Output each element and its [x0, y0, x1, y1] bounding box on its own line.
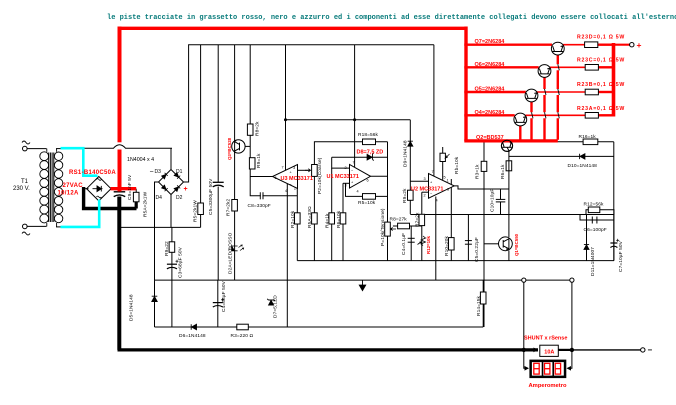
wire aux bridge left lead	[155, 182, 159, 280]
wire R23C out	[598, 66, 613, 68]
svg-text:C7=10µF 50V: C7=10µF 50V	[618, 240, 624, 272]
resistor R3	[237, 324, 249, 330]
wire rail Q7	[464, 44, 552, 46]
wire rail Q5	[464, 91, 526, 93]
resistor R18	[363, 139, 376, 145]
resistor R5A33	[312, 213, 318, 224]
svg-text:R5A=33Ω: R5A=33Ω	[307, 206, 313, 228]
wire U2 pin2 link	[422, 191, 429, 193]
diode D6	[191, 324, 196, 329]
svg-text:4: 4	[436, 199, 438, 203]
wire second bus	[285, 45, 287, 170]
resistor R16	[583, 139, 598, 145]
svg-text:D6=1N4148: D6=1N4148	[179, 333, 206, 339]
wire Q6 base drop	[543, 77, 545, 140]
svg-text:7: 7	[432, 170, 434, 174]
diode bridge aux D1-D4	[159, 170, 184, 195]
svg-text:1: 1	[447, 178, 449, 182]
resistor R5	[363, 194, 376, 200]
svg-text:7: 7	[353, 161, 355, 165]
wire offset pot column	[442, 147, 444, 180]
wire plus terminal lead	[614, 44, 631, 46]
wire rail Q4	[464, 114, 514, 116]
wire R18 row	[314, 142, 387, 165]
wire P2 bottom column	[313, 176, 315, 260]
capacitor C3	[167, 263, 177, 265]
wire Q4 emitter to R23A	[525, 114, 585, 117]
node sense top left	[522, 278, 526, 282]
wire U3 output link	[250, 176, 272, 178]
diode D5	[152, 296, 158, 301]
wire meter left lead	[524, 350, 528, 368]
transistor Q2	[501, 140, 512, 151]
svg-text:R5A=2k1W: R5A=2k1W	[143, 191, 149, 217]
transistor Q4	[514, 113, 527, 126]
wire R10 column	[450, 179, 452, 261]
svg-text:R9=1k: R9=1k	[256, 153, 262, 168]
wire thick minus trunk	[117, 197, 121, 350]
op-amp U3	[273, 165, 298, 189]
potentiometer offset	[440, 153, 445, 161]
resistor R23B	[585, 89, 598, 95]
wire red right bus	[612, 43, 616, 117]
potentiometer P2	[312, 165, 318, 177]
wire C7 column	[613, 215, 615, 261]
wire U1 pin3 link	[343, 182, 350, 184]
resistor R14	[480, 292, 486, 304]
svg-text:R12=56k: R12=56k	[584, 202, 605, 208]
wire C2 column	[467, 215, 469, 261]
transistor Q5	[525, 89, 538, 102]
wire RS1 minus lead	[84, 188, 89, 190]
svg-text:Q2=BD537: Q2=BD537	[476, 135, 504, 141]
capacitor C7	[610, 242, 617, 244]
svg-text:C6=100pF: C6=100pF	[584, 227, 607, 233]
svg-text:R7=2k2: R7=2k2	[226, 199, 232, 216]
wire right column black	[613, 142, 615, 261]
svg-text:10A: 10A	[544, 349, 554, 355]
svg-text:D10=1N4148: D10=1N4148	[568, 163, 598, 169]
svg-text:6: 6	[367, 178, 369, 182]
wire R6 column	[342, 183, 344, 260]
resistor R7	[232, 200, 238, 212]
wire R23D out	[598, 44, 614, 46]
svg-text:3: 3	[293, 166, 295, 170]
wire Q3 column top	[234, 45, 236, 141]
svg-text:R7=2k: R7=2k	[415, 212, 421, 227]
diode D10	[580, 154, 585, 159]
svg-text:27VAC: 27VAC	[63, 183, 84, 189]
wire C5 to bus3	[217, 187, 219, 281]
wire thick red trunk	[118, 27, 122, 192]
svg-text:R12=10k: R12=10k	[426, 235, 431, 254]
wire U3 pin2 column	[296, 189, 298, 261]
wire meter right lead	[568, 350, 572, 368]
capacitor C4A	[213, 302, 223, 304]
resistor R5B	[198, 203, 204, 215]
svg-text:D5=1N4148: D5=1N4148	[129, 294, 135, 321]
svg-text:P=10k(Tensione): P=10k(Tensione)	[380, 208, 386, 246]
capacitor C8	[259, 192, 261, 199]
terminal output plus	[630, 43, 634, 47]
transformer T1 secondary winding	[56, 149, 58, 152]
svg-text:Q1=BC550: Q1=BC550	[514, 233, 519, 256]
svg-text:1N4004 x 4: 1N4004 x 4	[127, 157, 154, 163]
svg-text:7: 7	[282, 165, 284, 169]
junction dot bus2 right	[353, 118, 356, 121]
wire Q3 base link	[240, 145, 251, 147]
resistor R23A	[585, 113, 598, 119]
wire Q5 base drop	[530, 102, 532, 140]
wire bus3	[155, 279, 572, 281]
svg-text:230 V.: 230 V.	[13, 186, 30, 192]
transformer T1 core	[48, 153, 50, 223]
ground	[359, 280, 365, 291]
wire U1 output node	[371, 175, 388, 177]
svg-text:R9=2k: R9=2k	[402, 188, 408, 203]
wire Q1 base row	[484, 243, 499, 245]
svg-text:R3=1k: R3=1k	[475, 164, 481, 179]
REDNET	[111, 27, 631, 192]
wire cyan secondary top	[61, 148, 98, 176]
wire Q7 emitter to R23D	[563, 44, 585, 47]
svg-text:C5=3300µF 50V: C5=3300µF 50V	[208, 178, 214, 215]
svg-text:6: 6	[275, 176, 277, 180]
resistor R9a	[249, 158, 255, 169]
svg-text:D11=1N4007: D11=1N4007	[590, 247, 596, 276]
resistor R3b	[481, 161, 487, 171]
svg-text:5: 5	[444, 175, 446, 179]
wire C10 drop	[500, 189, 502, 215]
ammeter display	[529, 360, 566, 379]
wire U2 pin4 drop	[435, 197, 437, 281]
wire R14 column	[482, 280, 484, 327]
transformer T1 primary terminal top	[23, 146, 28, 151]
wire crossover jogs	[532, 64, 560, 118]
svg-text:R4=1k: R4=1k	[325, 213, 331, 228]
svg-text:R3=220 Ω: R3=220 Ω	[231, 333, 254, 339]
node sense top right	[570, 278, 574, 282]
svg-text:Q6=2N6284: Q6=2N6284	[475, 62, 506, 68]
svg-text:R9=22: R9=22	[164, 241, 170, 256]
svg-text:R2=10k: R2=10k	[290, 210, 296, 228]
svg-text:R23A=0,1 Ω 5W: R23A=0,1 Ω 5W	[577, 106, 625, 112]
resistor R9b	[169, 242, 175, 253]
capacitor C5	[213, 181, 224, 183]
svg-text:le piste tracciate in grassett: le piste tracciate in grassetto rosso, n…	[107, 14, 676, 22]
svg-text:D4: D4	[156, 195, 163, 201]
svg-text:4: 4	[285, 189, 287, 193]
wire rail Q6	[464, 66, 538, 68]
wire Q3 emitter chain	[234, 152, 236, 280]
wire D11 column	[586, 215, 588, 261]
wire D10 row	[509, 155, 614, 157]
wire R23A out	[598, 114, 613, 116]
THICKBLACK	[84, 187, 572, 350]
svg-text:Amperometro: Amperometro	[529, 383, 567, 389]
diode D9	[408, 141, 413, 146]
svg-text:R6=1k: R6=1k	[500, 164, 506, 179]
wire R4 column	[331, 168, 333, 261]
wire P3 pot bottom	[387, 236, 389, 261]
svg-text:2: 2	[424, 193, 426, 197]
wire R16 row	[514, 141, 614, 143]
capacitor C2	[465, 240, 472, 242]
svg-text:RS1-B140C50A: RS1-B140C50A	[69, 170, 116, 176]
wire Q7 base drop	[557, 55, 559, 140]
wire U1 pin2 link	[332, 157, 350, 168]
wire RS1 plus row	[111, 187, 137, 190]
capacitor C6	[591, 217, 593, 224]
svg-text:R23B=0,1 Ω 5W: R23B=0,1 Ω 5W	[577, 82, 625, 88]
svg-text:R10=20k: R10=20k	[444, 235, 450, 256]
wire Q4 base drop	[519, 126, 521, 140]
transistor Q6	[538, 65, 551, 78]
svg-text:R14=15k: R14=15k	[476, 295, 482, 316]
wire R5A bottom stub	[135, 202, 138, 209]
wire top bus	[184, 45, 434, 182]
wire rail Q2	[464, 139, 558, 142]
wire R7 column	[421, 192, 423, 260]
transistor Q3	[232, 140, 245, 153]
wire U3 pin4 drop	[286, 184, 288, 328]
wire opamp V+ line crossing red trunk	[84, 142, 172, 149]
wire R9-C3 branch	[171, 227, 173, 327]
resistor R4	[329, 213, 335, 224]
wire U1 supply drop	[354, 45, 356, 167]
transistor Q7	[551, 42, 564, 55]
svg-text:C4=68µF 50V: C4=68µF 50V	[221, 280, 227, 312]
resistor R10	[449, 238, 455, 250]
wire thick red top	[118, 27, 467, 30]
wire U2 output row	[454, 186, 509, 189]
transformer T1 primary terminal bottom	[23, 224, 28, 229]
resistor R5A	[135, 189, 137, 193]
svg-text:10/12A: 10/12A	[58, 191, 80, 197]
resistor R12	[586, 210, 614, 215]
wire C4A branch	[217, 280, 219, 327]
svg-text:+: +	[637, 40, 642, 50]
wire Q5 emitter to R23B	[536, 91, 585, 94]
svg-text:D2: D2	[176, 195, 183, 201]
wire Q6 emitter to R23C	[549, 66, 585, 69]
wire thick minus elbow	[84, 187, 137, 209]
wire thick red right drop	[464, 27, 467, 142]
wire feedback vertical	[387, 142, 389, 222]
svg-text:R23C=0,1 Ω 5W: R23C=0,1 Ω 5W	[577, 57, 625, 63]
wire R5B column	[200, 45, 202, 228]
svg-text:2: 2	[345, 166, 347, 170]
wire aux minus branch	[119, 226, 200, 228]
wire thick bottom bus	[118, 348, 539, 351]
svg-text:Q4=2N6284: Q4=2N6284	[475, 110, 506, 116]
junction dot shunt left	[522, 348, 526, 352]
svg-text:Q5=2N6284: Q5=2N6284	[475, 87, 506, 93]
svg-text:D8=7,5 ZD: D8=7,5 ZD	[357, 149, 384, 155]
resistor R7b	[419, 214, 425, 225]
resistor R8	[247, 124, 253, 135]
svg-text:+: +	[184, 186, 188, 193]
wire bus6	[410, 214, 614, 216]
svg-text:C5=0.22µF: C5=0.22µF	[474, 237, 480, 262]
wire main sense column	[483, 141, 485, 327]
svg-text:SHUNT x rSense: SHUNT x rSense	[524, 335, 567, 341]
resistor R6b	[506, 161, 512, 171]
capacitor C4	[408, 237, 415, 239]
wire sense left drop	[523, 280, 525, 350]
svg-text:R16=1k: R16=1k	[579, 134, 597, 140]
wire U3 pin3 to P2 wiper	[298, 169, 309, 171]
svg-text:4: 4	[357, 189, 359, 193]
CYANNET	[61, 148, 100, 227]
svg-text:R8=2k: R8=2k	[255, 121, 261, 136]
bridge rectifier RS1	[87, 177, 111, 201]
capacitor C9	[114, 191, 126, 193]
wire R5 feedback row	[346, 183, 388, 196]
resistor R23D	[585, 42, 598, 48]
resistor R23C	[585, 65, 598, 71]
resistor R8b	[398, 223, 410, 229]
seven segment digits	[534, 363, 561, 374]
svg-text:T1: T1	[21, 179, 29, 185]
svg-text:R23D=0,1 Ω 5W: R23D=0,1 Ω 5W	[577, 35, 625, 41]
wire aux bridge top lead	[170, 148, 172, 169]
wire U2 supply drop	[433, 45, 435, 176]
capacitor C10	[496, 200, 506, 202]
LABELS	[13, 179, 30, 192]
wire C5 column	[217, 45, 219, 183]
wire cyan secondary bottom	[61, 200, 100, 227]
resistor R9	[408, 190, 414, 200]
wire D8 row	[332, 156, 388, 158]
op-amp U1	[350, 165, 371, 189]
wire U2 pin3 link	[410, 180, 428, 182]
wire R8 row	[393, 225, 422, 227]
svg-text:P2=10k(Coarse): P2=10k(Coarse)	[317, 157, 323, 194]
junction dot shunt right	[570, 348, 574, 352]
svg-text:C9=1nF 5V: C9=1nF 5V	[127, 174, 133, 200]
svg-text:C8=330pF: C8=330pF	[248, 203, 271, 209]
wire D9 column	[409, 120, 411, 214]
svg-text:R5=2k1W: R5=2k1W	[193, 200, 199, 222]
svg-text:6: 6	[447, 187, 449, 191]
svg-text:U2 MC33171: U2 MC33171	[411, 186, 443, 192]
wire D5 branch	[154, 280, 156, 327]
wire aux bridge bottom lead	[170, 195, 172, 228]
svg-text:C10=10µF: C10=10µF	[490, 189, 496, 212]
zener D8	[367, 153, 374, 161]
LED D2A	[232, 246, 238, 251]
wire output minus lead	[572, 349, 641, 351]
svg-text:R18=56k: R18=56k	[358, 132, 379, 138]
svg-text:D7=5,1ZD: D7=5,1ZD	[273, 295, 279, 318]
svg-text:Rb=10k: Rb=10k	[454, 156, 460, 174]
svg-text:R5=10k: R5=10k	[358, 200, 376, 206]
svg-text:3: 3	[345, 183, 347, 187]
svg-text:U1 MC33171: U1 MC33171	[327, 174, 359, 180]
wire primary leads	[27, 148, 46, 150]
resistor R2	[295, 213, 301, 224]
svg-text:U3 MC33171: U3 MC33171	[281, 176, 313, 182]
diode D11	[584, 244, 589, 249]
transistor Q1	[499, 237, 513, 251]
svg-text:R6=10k: R6=10k	[336, 210, 342, 228]
transistor Q2 outline over rail	[501, 140, 512, 151]
svg-text:Q7=2N6284: Q7=2N6284	[475, 39, 506, 45]
svg-text:3: 3	[424, 177, 426, 181]
wire Q2 base column	[508, 150, 510, 237]
trimmer zigzag	[418, 236, 426, 246]
zener D7	[267, 299, 275, 305]
junction dot aux minus	[118, 226, 122, 230]
svg-text:D9=1N4148: D9=1N4148	[403, 140, 409, 167]
wire bus2 horizontal	[286, 119, 411, 121]
wire R8-R9 column	[249, 45, 251, 177]
svg-text:R8=27k: R8=27k	[390, 217, 408, 223]
op-amp U2	[429, 174, 455, 199]
wire C4 column	[410, 226, 412, 261]
svg-text:Q3=BC528: Q3=BC528	[227, 137, 232, 160]
svg-text:−: −	[150, 169, 154, 176]
svg-text:D1: D1	[176, 169, 183, 175]
svg-text:D3: D3	[155, 169, 162, 175]
wire shunt to dot2	[558, 349, 572, 351]
wire bus5	[297, 260, 614, 262]
svg-text:C3=68µF 50V: C3=68µF 50V	[178, 246, 184, 278]
terminal output minus	[641, 348, 645, 352]
wire R23B out	[598, 91, 613, 93]
wire secondary stubs	[56, 148, 61, 150]
junction dot bus2 left	[284, 118, 287, 121]
wire C6 loop	[580, 215, 614, 221]
wire sense right drop	[571, 280, 573, 350]
wire bus4	[155, 326, 484, 328]
svg-text:−: −	[648, 346, 653, 355]
shunt box	[540, 345, 559, 356]
resistor R6	[340, 213, 346, 224]
wire Q1 emitter	[508, 251, 510, 261]
svg-text:D2A=LED/ROSSO: D2A=LED/ROSSO	[228, 232, 234, 274]
svg-text:2: 2	[294, 186, 296, 190]
svg-text:C4=0.1µF: C4=0.1µF	[401, 233, 407, 255]
wire C8 row	[250, 177, 297, 196]
transformer T1 primary winding	[46, 149, 48, 152]
potentiometer P3	[385, 222, 391, 236]
